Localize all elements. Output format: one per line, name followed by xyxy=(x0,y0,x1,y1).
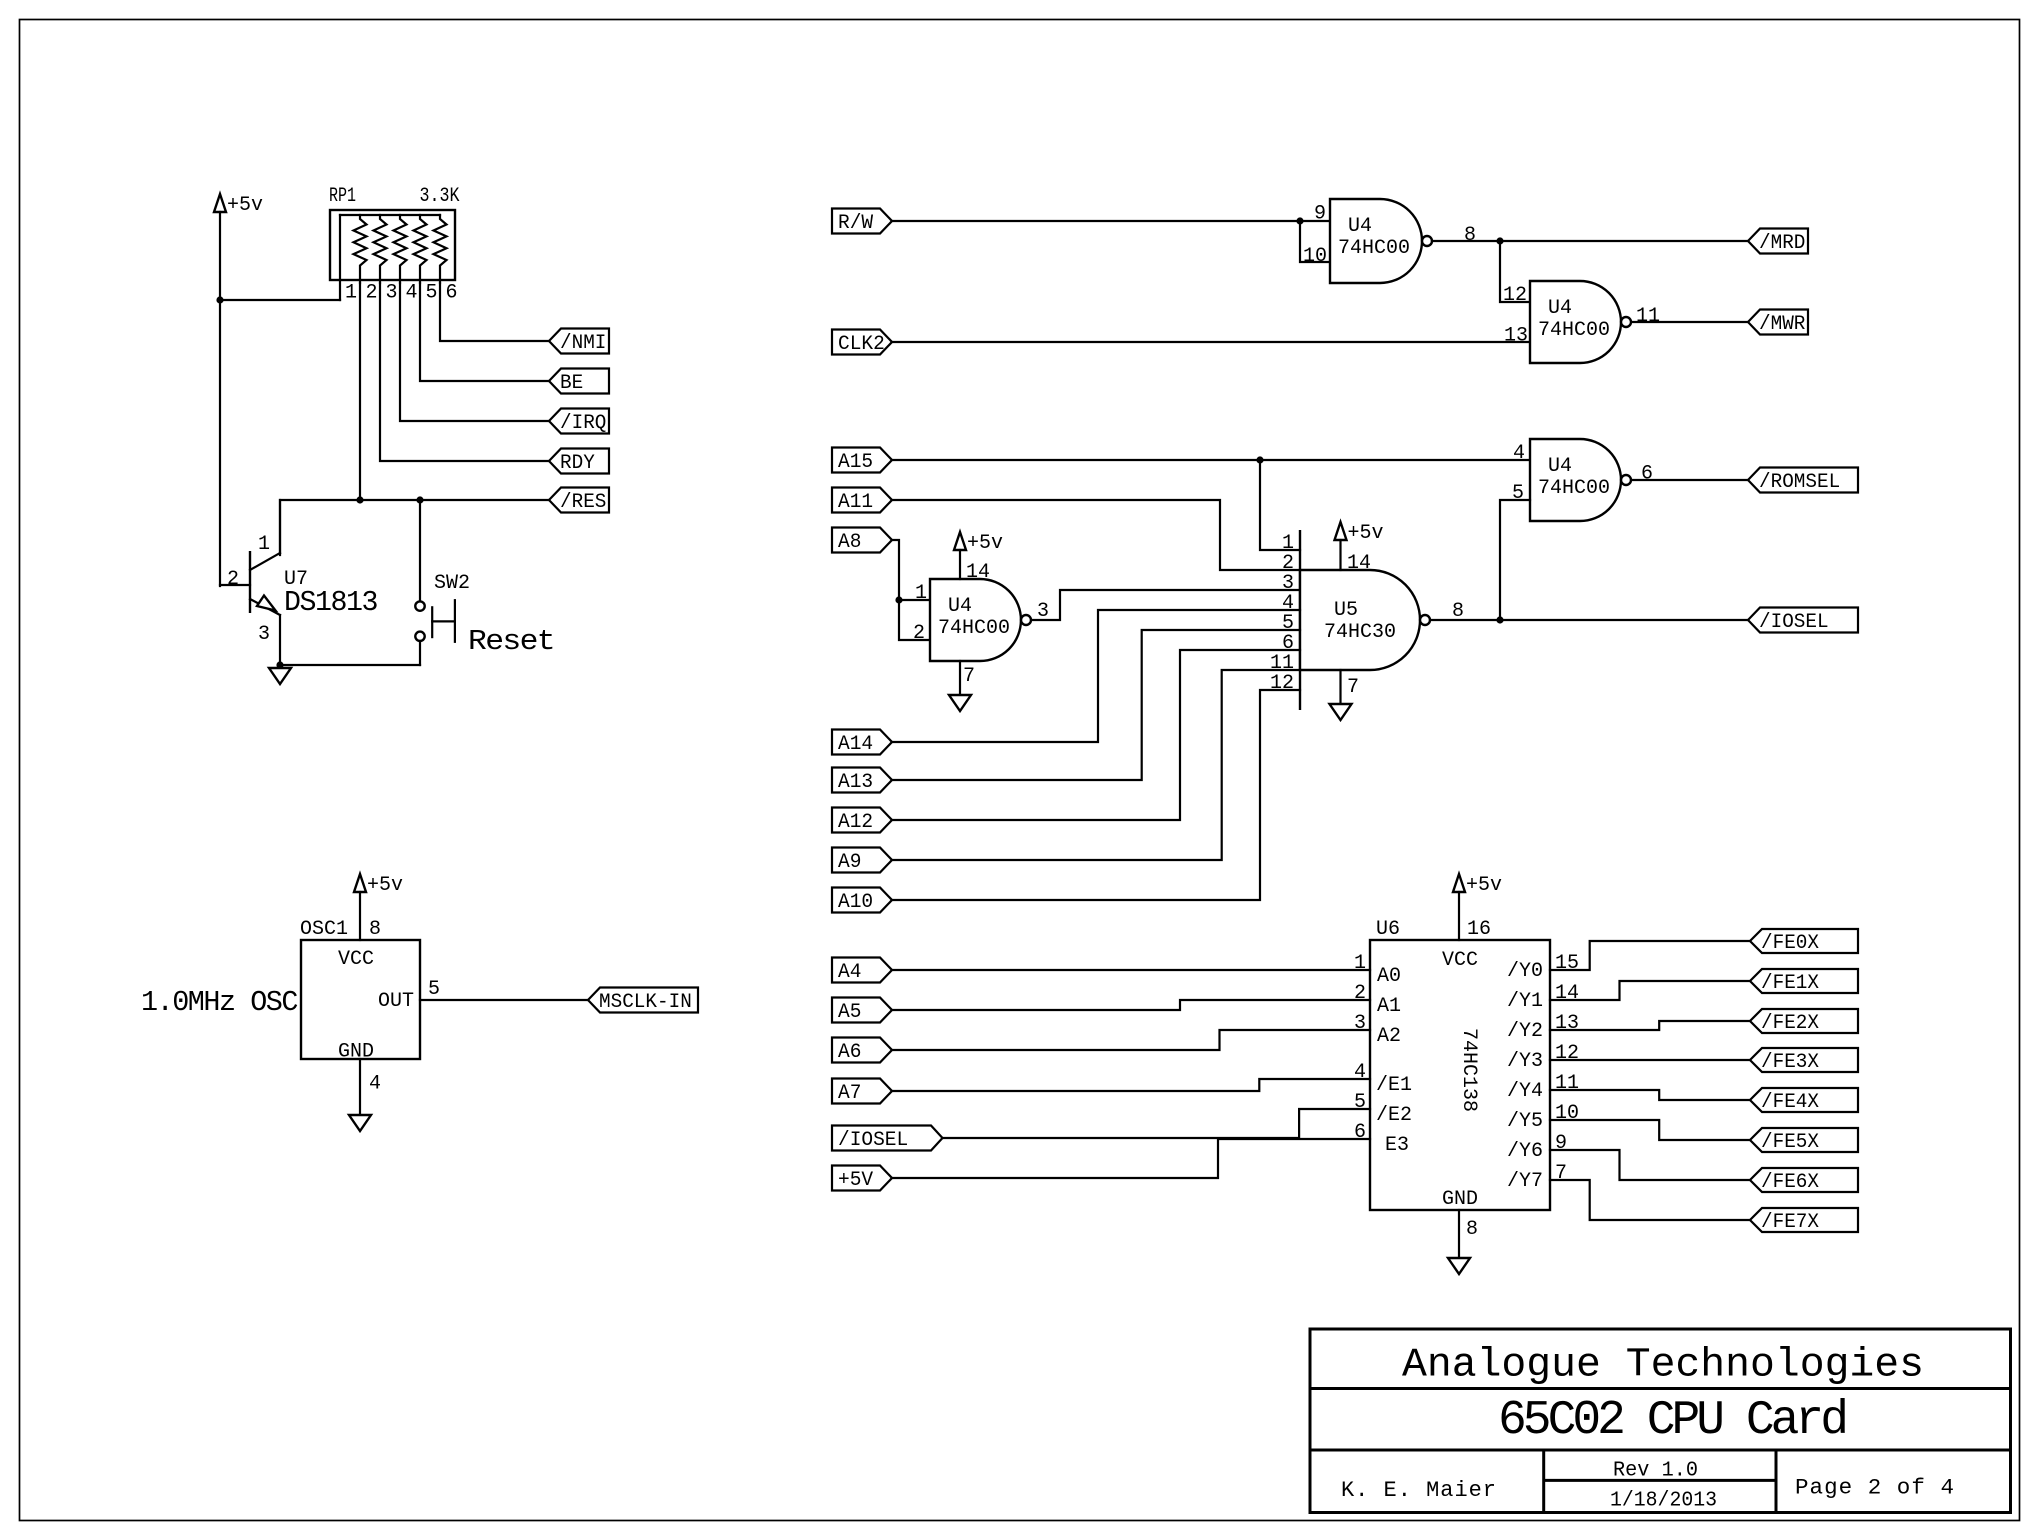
svg-text:74HC00: 74HC00 xyxy=(1538,477,1610,500)
svg-text:/ROMSEL: /ROMSEL xyxy=(1759,471,1840,494)
svg-text:MSCLK-IN: MSCLK-IN xyxy=(599,991,692,1014)
svg-text:14: 14 xyxy=(1555,982,1579,1005)
wire R/W branch to U4 pin 10 xyxy=(1300,221,1330,262)
svg-text:13: 13 xyxy=(1555,1012,1579,1035)
svg-text:3: 3 xyxy=(258,623,270,646)
svg-text:DS1813: DS1813 xyxy=(284,586,377,619)
svg-text:5: 5 xyxy=(428,978,440,1001)
ground (U7 / SW2) xyxy=(279,665,281,668)
svg-text:4: 4 xyxy=(369,1073,381,1096)
svg-text:U6: U6 xyxy=(1376,918,1400,941)
wire /MRD net xyxy=(1432,240,1748,242)
wire RP1 pin 2 to /RES net xyxy=(359,283,361,500)
svg-text:3.3K: 3.3K xyxy=(420,185,460,208)
svg-text:/Y2: /Y2 xyxy=(1507,1020,1543,1043)
svg-text:/Y3: /Y3 xyxy=(1507,1050,1543,1073)
svg-text:CLK2: CLK2 xyxy=(838,333,885,356)
wire A12 to U5 pin 6 xyxy=(892,650,1300,820)
wire U6 /FE6X xyxy=(1550,1150,1750,1180)
wire A15 branch to U5 pin 1 xyxy=(1260,460,1300,550)
wire U6 /FE7X xyxy=(1550,1180,1750,1220)
svg-text:OSC1: OSC1 xyxy=(300,918,348,941)
net flag /NMI xyxy=(549,329,609,354)
svg-text:7: 7 xyxy=(963,665,975,688)
net flag /FE2X xyxy=(1750,1009,1858,1033)
junction +5v / RP1 common xyxy=(216,296,223,303)
nand gate U4b 74HC00 (pins 12,13 -> 11) xyxy=(1530,281,1621,363)
svg-text:/NMI: /NMI xyxy=(560,332,606,355)
svg-text:/IOSEL: /IOSEL xyxy=(1759,611,1829,634)
wire A11 to U5 pin 2 xyxy=(892,500,1300,570)
net flag RDY xyxy=(549,449,609,474)
wire U5 output to U4 pin 5 xyxy=(1500,500,1530,620)
svg-text:Reset: Reset xyxy=(468,625,554,658)
svg-text:/RES: /RES xyxy=(560,491,606,514)
svg-text:/MRD: /MRD xyxy=(1759,232,1805,255)
svg-text:+5v: +5v xyxy=(967,532,1003,555)
ground at U5 pin 7 xyxy=(1339,670,1341,704)
net flag /FE4X xyxy=(1750,1088,1858,1112)
svg-text:/Y4: /Y4 xyxy=(1507,1080,1543,1103)
net flag /FE3X xyxy=(1750,1048,1858,1072)
svg-text:A4: A4 xyxy=(838,961,861,984)
net flag /IOSEL (input) xyxy=(832,1126,943,1151)
net flag A11 xyxy=(832,488,892,513)
svg-text:8: 8 xyxy=(369,918,381,941)
svg-text:1/18/2013: 1/18/2013 xyxy=(1610,1490,1717,1513)
ground at U6 pin 8 xyxy=(1458,1210,1460,1258)
svg-text:/FE4X: /FE4X xyxy=(1761,1091,1819,1114)
svg-text:/E1: /E1 xyxy=(1376,1074,1412,1097)
net flag /FE7X xyxy=(1750,1208,1858,1232)
svg-text:/MWR: /MWR xyxy=(1759,313,1805,336)
net flag /FE0X xyxy=(1750,929,1858,953)
net flag A12 xyxy=(832,808,892,833)
svg-text:5: 5 xyxy=(1354,1091,1366,1114)
wire A15 to U4 pin 4 xyxy=(892,459,1530,461)
wire CLK2 to U4 pin 13 xyxy=(892,341,1530,343)
wire SW2 bottom to U7 emitter xyxy=(280,664,420,666)
wire RP1 pin 6 to /NMI xyxy=(440,283,549,341)
wire U6 /FE3X xyxy=(1550,1059,1750,1061)
power +5v at U5 pin 14 xyxy=(1335,522,1347,540)
wire OSC1 OUT to MSCLK-IN xyxy=(420,999,588,1001)
net flag A10 xyxy=(832,888,892,913)
svg-text:7: 7 xyxy=(1347,676,1359,699)
svg-text:Analogue Technologies: Analogue Technologies xyxy=(1402,1343,1924,1389)
svg-text:8: 8 xyxy=(1464,224,1476,247)
svg-text:SW2: SW2 xyxy=(434,572,470,595)
svg-text:5: 5 xyxy=(425,282,437,305)
junction /IOSEL / U4 pin 5 xyxy=(1496,616,1503,623)
svg-text:/Y5: /Y5 xyxy=(1507,1110,1543,1133)
net flag /RES xyxy=(549,488,609,513)
junction /RES / SW2 xyxy=(416,496,423,503)
svg-text:K. E. Maier: K. E. Maier xyxy=(1341,1478,1497,1503)
svg-text:/IOSEL: /IOSEL xyxy=(838,1129,908,1152)
svg-text:VCC: VCC xyxy=(338,948,374,971)
svg-text:+5v: +5v xyxy=(367,874,403,897)
wire RP1 pin 4 to /IRQ xyxy=(400,283,549,421)
svg-text:R/W: R/W xyxy=(838,212,873,235)
svg-text:A10: A10 xyxy=(838,891,873,914)
svg-text:12: 12 xyxy=(1503,284,1527,307)
wire /ROMSEL net xyxy=(1631,479,1748,481)
svg-text:RP1: RP1 xyxy=(329,185,356,208)
wire A10 to U5 pin 12 xyxy=(892,690,1300,900)
svg-text:4: 4 xyxy=(405,282,417,305)
svg-text:6: 6 xyxy=(445,282,457,305)
wire RP1 pin 1 to +5v rail xyxy=(220,299,340,301)
svg-text:10: 10 xyxy=(1555,1102,1579,1125)
svg-text:6: 6 xyxy=(1641,463,1653,486)
net flag A15 xyxy=(832,448,892,473)
wire A8 branch to U4 pin 2 xyxy=(899,600,930,640)
wire /MWR net xyxy=(1632,321,1748,323)
svg-text:/FE3X: /FE3X xyxy=(1761,1051,1819,1074)
wire A13 to U5 pin 5 xyxy=(892,630,1300,780)
net flag A8 xyxy=(832,528,892,553)
wire /IOSEL to U6 pin 5 xyxy=(943,1109,1371,1138)
svg-text:A0: A0 xyxy=(1377,965,1401,988)
svg-text:15: 15 xyxy=(1555,952,1579,975)
net flag /ROMSEL xyxy=(1748,468,1858,493)
wire RP1 pin 5 to BE xyxy=(420,283,549,381)
svg-text:U4: U4 xyxy=(1348,215,1372,238)
wire U6 /FE5X xyxy=(1550,1120,1750,1140)
svg-text:1.0MHz OSC: 1.0MHz OSC xyxy=(141,986,298,1019)
junction emitter / ground xyxy=(276,661,283,668)
svg-text:2: 2 xyxy=(227,568,239,591)
svg-text:+5V: +5V xyxy=(838,1169,873,1192)
decoder U6 74HC138 body xyxy=(1370,940,1550,1210)
wire U6 /FE4X xyxy=(1550,1090,1750,1100)
wire /RES net xyxy=(280,500,549,555)
wire /MRD branch to U4 pin 12 xyxy=(1500,241,1530,302)
svg-text:74HC00: 74HC00 xyxy=(1338,237,1410,260)
wire +5V to U6 pin 6 xyxy=(892,1139,1370,1178)
junction R/W pins 9/10 xyxy=(1296,217,1303,224)
junction A8 pins 1/2 xyxy=(895,596,902,603)
transistor U7 DS1813 (reset supervisor) xyxy=(249,551,251,613)
net flag A4 xyxy=(832,958,892,983)
svg-text:6: 6 xyxy=(1354,1121,1366,1144)
net flag /FE1X xyxy=(1750,969,1858,993)
title block xyxy=(1310,1329,2011,1513)
svg-text:74HC30: 74HC30 xyxy=(1324,621,1396,644)
svg-text:+5v: +5v xyxy=(227,194,263,217)
svg-text:1: 1 xyxy=(258,533,270,556)
svg-text:A1: A1 xyxy=(1377,995,1401,1018)
net flag BE xyxy=(549,369,609,394)
svg-text:VCC: VCC xyxy=(1442,949,1478,972)
svg-text:3: 3 xyxy=(1354,1012,1366,1035)
svg-text:/Y1: /Y1 xyxy=(1507,990,1543,1013)
wire A6 to U6 pin 3 xyxy=(892,1030,1370,1050)
svg-text:U4: U4 xyxy=(948,595,972,618)
svg-text:9: 9 xyxy=(1555,1132,1567,1155)
svg-text:A2: A2 xyxy=(1377,1025,1401,1048)
power +5v at U6 pin 16 xyxy=(1453,874,1465,892)
svg-text:65C02 CPU Card: 65C02 CPU Card xyxy=(1498,1394,1845,1448)
switch SW2 (pushbutton) xyxy=(419,500,421,601)
svg-text:A6: A6 xyxy=(838,1041,861,1064)
svg-text:A15: A15 xyxy=(838,451,873,474)
svg-text:11: 11 xyxy=(1636,305,1660,328)
net flag CLK2 xyxy=(832,330,892,355)
net flag R/W xyxy=(832,209,892,234)
net flag MSCLK-IN xyxy=(588,988,698,1013)
svg-text:/FE7X: /FE7X xyxy=(1761,1211,1819,1234)
wire A9 to U5 pin 11 xyxy=(892,670,1300,860)
net flag A14 xyxy=(832,730,892,755)
ground at U4d pin 7 xyxy=(959,661,961,695)
svg-text:/FE6X: /FE6X xyxy=(1761,1171,1819,1194)
svg-text:1: 1 xyxy=(345,282,357,305)
power +5v at U4d pin 14 xyxy=(954,532,966,550)
net flag A13 xyxy=(832,768,892,793)
svg-text:74HC138: 74HC138 xyxy=(1457,1028,1480,1112)
svg-text:/Y7: /Y7 xyxy=(1507,1170,1543,1193)
svg-text:2: 2 xyxy=(365,282,377,305)
wire A7 to U6 pin 4 xyxy=(892,1079,1370,1091)
net flag +5V xyxy=(832,1166,892,1191)
net flag A9 xyxy=(832,848,892,873)
net flag /MRD xyxy=(1748,229,1808,254)
svg-text:1: 1 xyxy=(1354,952,1366,975)
nand gate U4c 74HC00 (pins 4,5 -> 6) xyxy=(1530,439,1621,521)
svg-text:U4: U4 xyxy=(1548,297,1572,320)
wire +5v vertical rail xyxy=(219,212,221,586)
nand gate U5 74HC30 (8-input) xyxy=(1299,530,1301,710)
svg-text:+5v: +5v xyxy=(1348,522,1384,545)
svg-text:GND: GND xyxy=(338,1041,374,1064)
svg-text:A11: A11 xyxy=(838,491,873,514)
svg-text:A13: A13 xyxy=(838,771,873,794)
svg-text:9: 9 xyxy=(1314,203,1326,226)
svg-text:3: 3 xyxy=(385,282,397,305)
resistor pack RP1 (5 resistors, common pin 1) xyxy=(330,210,455,280)
svg-text:A14: A14 xyxy=(838,733,873,756)
svg-text:U5: U5 xyxy=(1334,599,1358,622)
net flag A7 xyxy=(832,1079,892,1104)
wire A5 to U6 pin 2 xyxy=(892,1000,1370,1010)
svg-text:RDY: RDY xyxy=(560,452,595,475)
wire U4d output to U5 pin 3 xyxy=(1031,590,1300,620)
svg-text:/Y6: /Y6 xyxy=(1507,1140,1543,1163)
svg-text:E3: E3 xyxy=(1385,1134,1409,1157)
junction /RES / RP1 pin2 xyxy=(356,496,363,503)
net flag /IRQ xyxy=(549,409,609,434)
nand gate U4d 74HC00 (pins 1,2 -> 3) xyxy=(930,579,1021,661)
svg-text:+5v: +5v xyxy=(1466,874,1502,897)
svg-text:14: 14 xyxy=(966,561,990,584)
svg-text:BE: BE xyxy=(560,372,583,395)
svg-text:5: 5 xyxy=(1512,482,1524,505)
svg-text:OUT: OUT xyxy=(378,990,414,1013)
svg-text:14: 14 xyxy=(1347,552,1371,575)
wire /IOSEL net (U5 output) xyxy=(1430,619,1748,621)
svg-text:13: 13 xyxy=(1504,325,1528,348)
wire U6 /FE1X xyxy=(1550,981,1750,1000)
wire A4 to U6 pin 1 xyxy=(892,969,1370,971)
svg-text:10: 10 xyxy=(1303,245,1327,268)
power +5v at OSC1 VCC xyxy=(354,874,366,892)
wire A14 to U5 pin 4 xyxy=(892,610,1300,742)
svg-text:A8: A8 xyxy=(838,531,861,554)
wire A8 to U4 pins 1/2 xyxy=(892,540,930,600)
svg-text:/IRQ: /IRQ xyxy=(560,412,606,435)
svg-text:2: 2 xyxy=(1354,982,1366,1005)
oscillator OSC1 body xyxy=(301,940,420,1059)
svg-text:Page 2 of 4: Page 2 of 4 xyxy=(1795,1476,1955,1501)
net flag /FE5X xyxy=(1750,1128,1858,1152)
svg-text:A9: A9 xyxy=(838,851,861,874)
svg-text:4: 4 xyxy=(1354,1061,1366,1084)
svg-text:/FE1X: /FE1X xyxy=(1761,972,1819,995)
power +5v supply (left) xyxy=(214,194,226,212)
nand gate U4a 74HC00 (pins 9,10 -> 8) xyxy=(1330,199,1422,283)
junction /MRD / U4 pin 12 xyxy=(1496,237,1503,244)
net flag A5 xyxy=(832,998,892,1023)
svg-text:7: 7 xyxy=(1555,1162,1567,1185)
ground at OSC1 xyxy=(359,1059,361,1115)
wire U6 /FE2X xyxy=(1550,1021,1750,1030)
wire U6 /FE0X xyxy=(1550,941,1750,970)
svg-text:A5: A5 xyxy=(838,1001,861,1024)
svg-text:/FE2X: /FE2X xyxy=(1761,1012,1819,1035)
net flag A6 xyxy=(832,1038,892,1063)
svg-text:Rev 1.0: Rev 1.0 xyxy=(1613,1460,1698,1483)
wire R/W to U4 pin 9 xyxy=(892,220,1330,222)
svg-text:16: 16 xyxy=(1467,918,1491,941)
junction A15 / U5 pin 1 xyxy=(1256,456,1263,463)
svg-text:/Y0: /Y0 xyxy=(1507,960,1543,983)
svg-text:A12: A12 xyxy=(838,811,873,834)
wire RP1 pin 3 to RDY xyxy=(380,283,549,461)
svg-text:U4: U4 xyxy=(1548,455,1572,478)
svg-text:A7: A7 xyxy=(838,1082,861,1105)
svg-text:/E2: /E2 xyxy=(1376,1104,1412,1127)
net flag /IOSEL (output) xyxy=(1748,608,1858,633)
svg-text:/FE5X: /FE5X xyxy=(1761,1131,1819,1154)
svg-text:74HC00: 74HC00 xyxy=(1538,319,1610,342)
svg-text:2: 2 xyxy=(913,622,925,645)
net flag /MWR xyxy=(1748,310,1808,335)
svg-text:11: 11 xyxy=(1555,1072,1579,1095)
svg-text:4: 4 xyxy=(1513,442,1525,465)
svg-text:/FE0X: /FE0X xyxy=(1761,932,1819,955)
svg-text:1: 1 xyxy=(915,582,927,605)
svg-text:74HC00: 74HC00 xyxy=(938,617,1010,640)
svg-text:12: 12 xyxy=(1555,1042,1579,1065)
svg-text:8: 8 xyxy=(1466,1218,1478,1241)
svg-text:12: 12 xyxy=(1270,672,1294,695)
net flag /FE6X xyxy=(1750,1168,1858,1192)
svg-text:GND: GND xyxy=(1442,1188,1478,1211)
